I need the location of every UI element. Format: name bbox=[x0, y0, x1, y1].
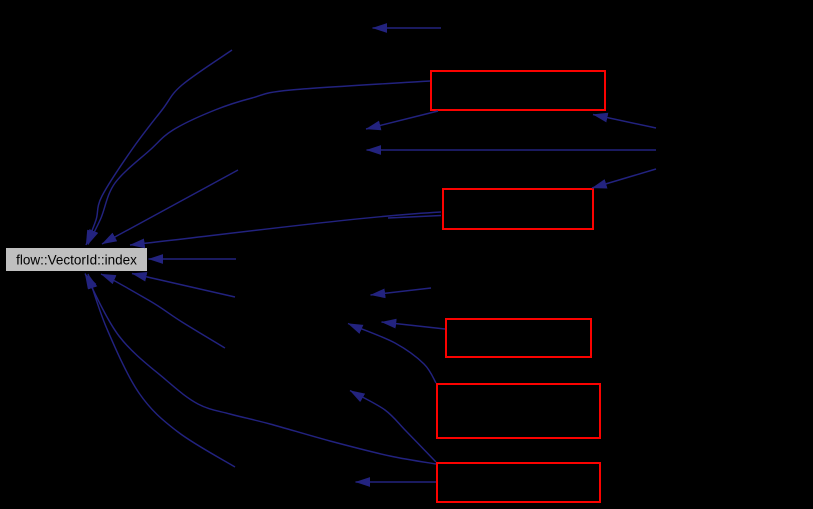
edge E4 right node to red box 2 bbox=[592, 169, 656, 188]
edge L3 straight to gray node bbox=[102, 170, 238, 244]
edge S1 to gray node bottom bbox=[132, 274, 235, 298]
red node box 4 bbox=[437, 384, 600, 438]
edge Dcurve red box 5 to middle arrow bbox=[350, 391, 436, 463]
red node box 3 bbox=[446, 319, 591, 357]
edge SR2 red box 2 to gray node bbox=[130, 212, 441, 245]
red node box 1 bbox=[431, 71, 605, 110]
edge S3 red box 5 to gray node bottom bbox=[85, 274, 436, 465]
edge E2 right node to red box 1 bbox=[593, 115, 656, 129]
edge E1 top arrow bbox=[373, 27, 442, 29]
red node box 5 bbox=[437, 463, 600, 502]
edge Aarrow bbox=[371, 288, 432, 295]
edge E3 long horizontal arrow bbox=[367, 149, 657, 151]
svg-text:flow::VectorId::index: flow::VectorId::index bbox=[16, 253, 137, 268]
red node box 2 bbox=[443, 189, 593, 229]
edge S2 to gray node bottom bbox=[101, 274, 225, 348]
gray node flow::VectorId::index bbox=[6, 248, 147, 271]
edge E6 red box 1 curve to gray node bbox=[88, 81, 430, 245]
edge Ccurve red box 4 to middle arrow bbox=[348, 324, 436, 384]
edge Arc1 curve from top to gray node bbox=[86, 50, 232, 245]
edge S4 bottom node to gray node bottom bbox=[88, 274, 235, 467]
edge E5 red box 1 to left arrow bbox=[366, 111, 438, 129]
wire short parallel segment near red box 2 bbox=[388, 216, 441, 219]
edge Earrow red box 5 left horizontal bbox=[356, 481, 437, 483]
edge Rmid horizontal into gray node right edge bbox=[149, 258, 237, 260]
edge Barrow red box 3 left bbox=[382, 322, 446, 329]
